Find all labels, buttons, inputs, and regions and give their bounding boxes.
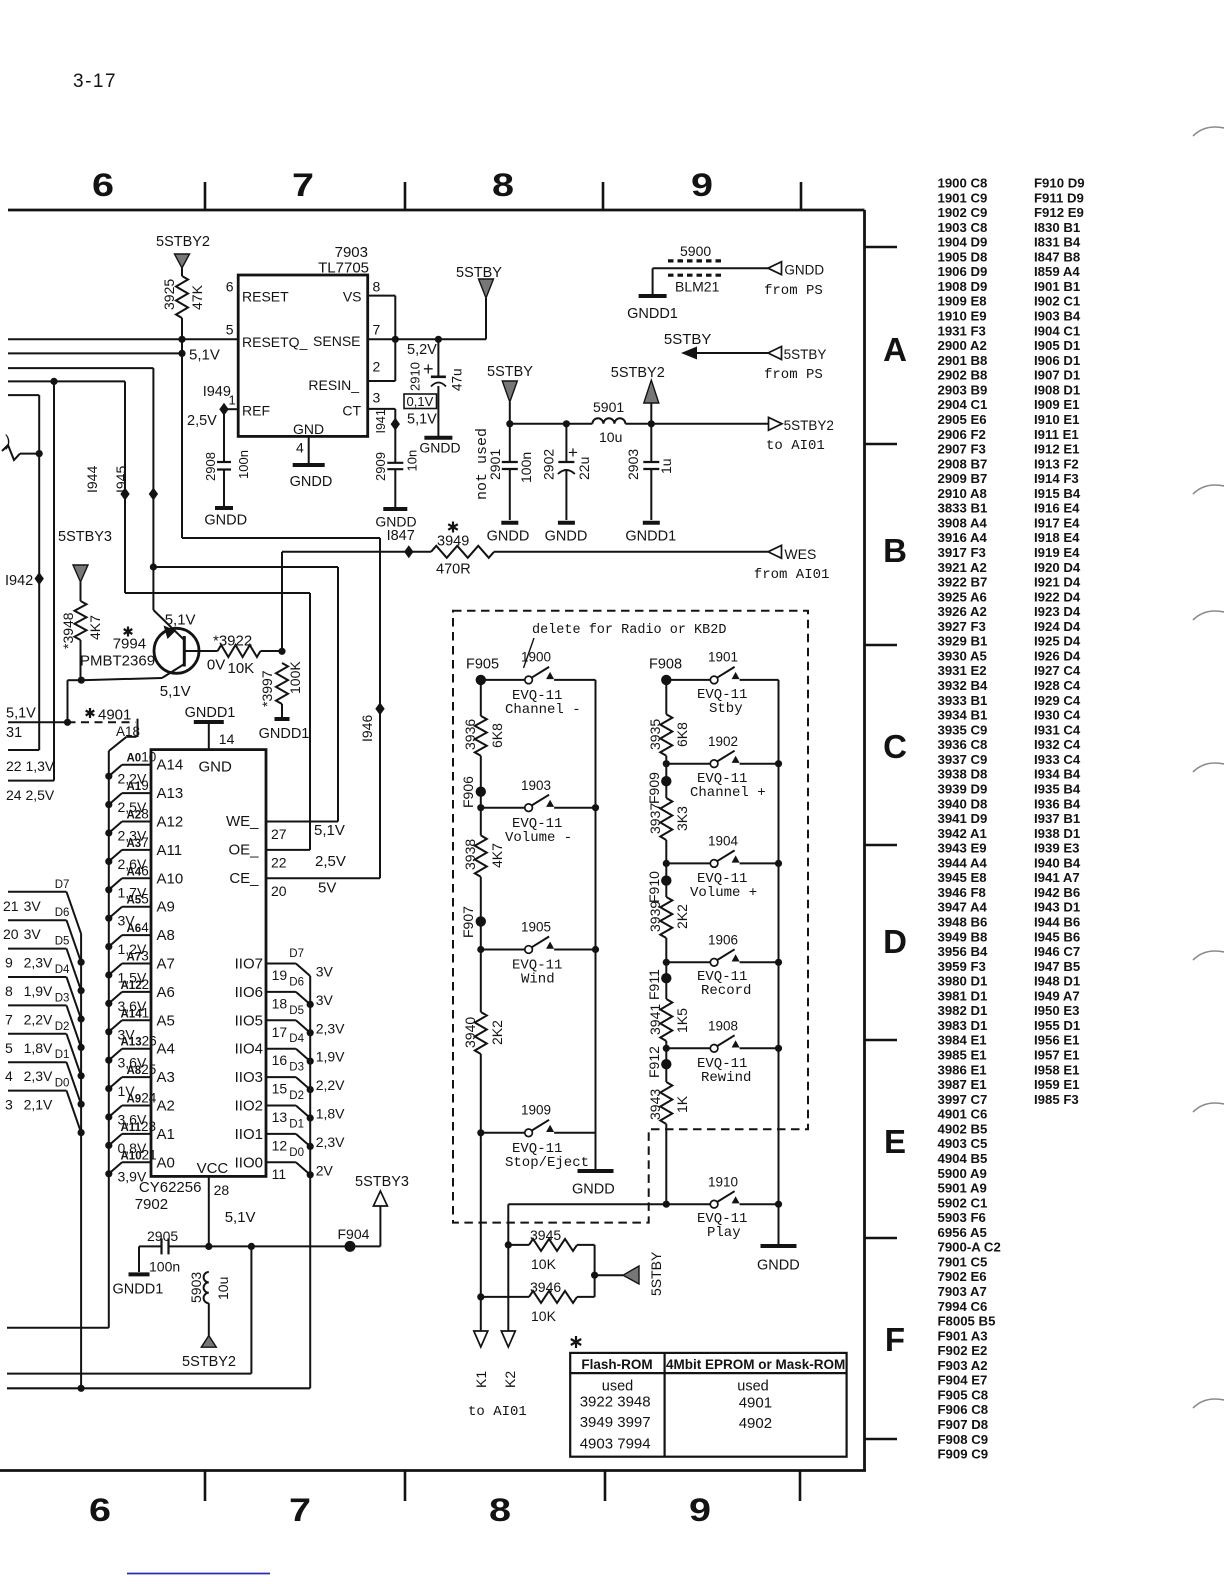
svg-text:to AI01: to AI01: [766, 438, 825, 454]
svg-text:D2: D2: [289, 1090, 304, 1102]
svg-text:6956 A5: 6956 A5: [938, 1225, 987, 1240]
svg-text:22: 22: [271, 855, 287, 871]
svg-text:100n: 100n: [518, 452, 534, 483]
svg-text:11: 11: [272, 1166, 287, 1182]
svg-text:5,1V: 5,1V: [6, 706, 36, 722]
svg-text:1K5: 1K5: [674, 1008, 690, 1033]
svg-text:I847 B8: I847 B8: [1034, 249, 1080, 264]
svg-text:3936 C8: 3936 C8: [938, 737, 988, 752]
svg-text:A13: A13: [157, 785, 184, 802]
svg-text:I959 E1: I959 E1: [1034, 1077, 1079, 1092]
svg-text:100n: 100n: [149, 1259, 180, 1275]
svg-text:F901 A3: F901 A3: [938, 1328, 988, 1343]
svg-text:*3922: *3922: [213, 633, 252, 650]
svg-text:A28: A28: [127, 807, 149, 822]
svg-text:10K: 10K: [228, 660, 255, 677]
svg-text:IIO2: IIO2: [235, 1098, 263, 1115]
svg-text:I942: I942: [5, 573, 33, 589]
svg-text:10K: 10K: [531, 1256, 557, 1272]
svg-text:12: 12: [272, 1137, 288, 1153]
svg-text:1904 D9: 1904 D9: [938, 235, 988, 250]
svg-text:7: 7: [373, 322, 381, 338]
svg-text:7903: 7903: [335, 244, 368, 261]
svg-text:RESETQ_: RESETQ_: [242, 334, 308, 350]
svg-text:100K: 100K: [287, 661, 303, 694]
svg-text:F912: F912: [646, 1046, 662, 1078]
svg-text:CT: CT: [342, 403, 361, 419]
svg-text:6K8: 6K8: [674, 722, 690, 747]
svg-text:1,9V: 1,9V: [24, 983, 53, 999]
svg-text:A010: A010: [127, 750, 157, 765]
svg-text:3949: 3949: [437, 534, 469, 550]
svg-text:2: 2: [373, 359, 381, 375]
svg-text:2,3V: 2,3V: [316, 1020, 345, 1036]
svg-text:A14: A14: [157, 757, 184, 774]
svg-text:5: 5: [226, 322, 234, 338]
svg-text:IIO1: IIO1: [235, 1126, 263, 1143]
svg-text:I942 B6: I942 B6: [1034, 885, 1080, 900]
svg-text:3935: 3935: [647, 719, 663, 750]
svg-text:D6: D6: [55, 907, 70, 919]
svg-text:2,5V: 2,5V: [315, 853, 346, 870]
svg-text:3937 C9: 3937 C9: [938, 752, 988, 767]
svg-text:0,1V: 0,1V: [407, 394, 434, 409]
svg-text:1,8V: 1,8V: [316, 1106, 345, 1122]
svg-text:2,3V: 2,3V: [316, 1134, 345, 1150]
svg-text:I929 C4: I929 C4: [1034, 693, 1081, 708]
svg-text:5,1V: 5,1V: [165, 612, 196, 629]
svg-text:F912 E9: F912 E9: [1034, 205, 1084, 220]
svg-text:Channel -: Channel -: [505, 702, 581, 718]
svg-text:GNDD1: GNDD1: [625, 529, 676, 545]
svg-text:4903 C5: 4903 C5: [938, 1136, 988, 1151]
svg-text:3833 B1: 3833 B1: [938, 501, 988, 516]
svg-text:1910 E9: 1910 E9: [938, 309, 987, 324]
svg-text:470R: 470R: [436, 562, 471, 578]
svg-text:A5: A5: [157, 1012, 175, 1029]
svg-text:F911 D9: F911 D9: [1034, 190, 1084, 205]
svg-text:2901: 2901: [487, 449, 503, 480]
svg-text:20: 20: [3, 926, 19, 942]
svg-text:8: 8: [489, 1492, 511, 1528]
svg-text:2903 B9: 2903 B9: [938, 382, 988, 397]
svg-text:6K8: 6K8: [489, 723, 505, 748]
svg-text:I935 B4: I935 B4: [1034, 781, 1081, 796]
svg-text:A7: A7: [157, 956, 175, 973]
svg-text:10K: 10K: [531, 1308, 557, 1324]
svg-text:Record: Record: [701, 983, 751, 999]
svg-text:5,1V: 5,1V: [160, 683, 191, 700]
svg-text:Play: Play: [707, 1225, 741, 1241]
svg-text:3917 F3: 3917 F3: [938, 545, 986, 560]
svg-text:4902 B5: 4902 B5: [938, 1121, 988, 1136]
svg-text:22 1,3V: 22 1,3V: [6, 758, 55, 774]
svg-text:I936 B4: I936 B4: [1034, 796, 1081, 811]
svg-text:3934 B1: 3934 B1: [938, 708, 988, 723]
svg-text:REF: REF: [242, 403, 270, 419]
svg-text:GNDD: GNDD: [290, 474, 333, 490]
svg-text:5,1V: 5,1V: [225, 1209, 256, 1226]
svg-text:I946: I946: [359, 715, 375, 742]
svg-text:F904 E7: F904 E7: [938, 1373, 988, 1388]
svg-text:I917 E4: I917 E4: [1034, 515, 1080, 530]
svg-text:5STBY2: 5STBY2: [611, 365, 665, 381]
svg-text:1910: 1910: [708, 1175, 738, 1190]
svg-text:21: 21: [3, 898, 19, 914]
svg-text:5900 A9: 5900 A9: [938, 1166, 987, 1181]
svg-text:I924 D4: I924 D4: [1034, 619, 1081, 634]
svg-text:3997 C7: 3997 C7: [938, 1092, 988, 1107]
svg-text:IIO5: IIO5: [235, 1012, 263, 1029]
svg-text:I945: I945: [113, 466, 129, 493]
svg-text:I912 E1: I912 E1: [1034, 442, 1079, 457]
svg-text:3921 A2: 3921 A2: [938, 560, 987, 575]
svg-text:GND: GND: [199, 759, 233, 776]
svg-text:3V: 3V: [24, 898, 42, 914]
svg-text:I941 A7: I941 A7: [1034, 870, 1080, 885]
svg-text:5STBY2: 5STBY2: [784, 418, 834, 433]
svg-text:3: 3: [5, 1097, 13, 1113]
svg-text:4901: 4901: [98, 707, 131, 724]
svg-text:1902: 1902: [708, 734, 738, 749]
svg-text:I949 A7: I949 A7: [1034, 988, 1080, 1003]
svg-text:2908: 2908: [203, 452, 218, 481]
svg-text:4: 4: [5, 1068, 13, 1084]
svg-text:3959 F3: 3959 F3: [938, 959, 986, 974]
svg-text:GND: GND: [293, 421, 324, 437]
svg-text:D3: D3: [289, 1062, 304, 1074]
svg-text:GNDD1: GNDD1: [627, 306, 678, 322]
svg-text:from AI01: from AI01: [754, 567, 830, 583]
svg-text:3,9V: 3,9V: [118, 1168, 147, 1184]
svg-text:I914 F3: I914 F3: [1034, 471, 1079, 486]
svg-text:GNDD: GNDD: [545, 529, 588, 545]
svg-text:7902: 7902: [135, 1196, 168, 1213]
svg-text:F909: F909: [646, 772, 662, 804]
svg-text:I913 F2: I913 F2: [1034, 456, 1079, 471]
svg-text:4K7: 4K7: [87, 615, 103, 640]
svg-text:from PS: from PS: [764, 283, 823, 299]
svg-text:1,9V: 1,9V: [316, 1049, 345, 1065]
svg-text:A73: A73: [127, 949, 149, 964]
svg-text:I922 D4: I922 D4: [1034, 589, 1081, 604]
svg-text:1906 D9: 1906 D9: [938, 264, 988, 279]
svg-text:3925 A6: 3925 A6: [938, 589, 987, 604]
svg-text:5STBY: 5STBY: [784, 347, 827, 362]
svg-text:5STBY3: 5STBY3: [355, 1174, 409, 1190]
svg-text:2905: 2905: [147, 1228, 178, 1244]
svg-text:A37: A37: [127, 835, 149, 850]
svg-text:A1326: A1326: [121, 1034, 157, 1049]
svg-text:A12: A12: [157, 814, 184, 831]
svg-text:100n: 100n: [236, 450, 251, 479]
svg-text:A1: A1: [157, 1126, 175, 1143]
svg-text:47K: 47K: [189, 284, 205, 310]
svg-text:27: 27: [271, 826, 287, 842]
svg-text:2K2: 2K2: [674, 904, 690, 929]
svg-text:3945: 3945: [530, 1227, 561, 1243]
svg-text:I940 B4: I940 B4: [1034, 855, 1081, 870]
svg-text:A9: A9: [157, 899, 175, 916]
svg-text:3K3: 3K3: [674, 806, 690, 831]
svg-text:5902 C1: 5902 C1: [938, 1195, 988, 1210]
svg-text:1908 D9: 1908 D9: [938, 279, 988, 294]
svg-text:GNDD1: GNDD1: [259, 726, 310, 742]
svg-text:8: 8: [5, 983, 13, 999]
svg-text:A10: A10: [157, 870, 184, 887]
svg-text:I920 D4: I920 D4: [1034, 560, 1081, 575]
svg-text:1901: 1901: [708, 650, 738, 665]
svg-text:3930 A5: 3930 A5: [938, 648, 987, 663]
svg-text:I918 E4: I918 E4: [1034, 530, 1080, 545]
svg-text:3985 E1: 3985 E1: [938, 1048, 987, 1063]
svg-text:3941: 3941: [647, 1004, 663, 1035]
svg-text:*3948: *3948: [60, 612, 76, 649]
svg-text:2910: 2910: [408, 362, 423, 391]
svg-text:F905 C8: F905 C8: [938, 1387, 989, 1402]
svg-text:SENSE: SENSE: [313, 333, 360, 349]
svg-text:F8005 B5: F8005 B5: [938, 1314, 996, 1329]
svg-text:2907 F3: 2907 F3: [938, 442, 986, 457]
svg-text:2904 C1: 2904 C1: [938, 397, 988, 412]
svg-text:I916 E4: I916 E4: [1034, 501, 1080, 516]
svg-text:1903: 1903: [521, 778, 551, 793]
svg-text:2K2: 2K2: [489, 1020, 505, 1045]
svg-text:I859 A4: I859 A4: [1034, 264, 1080, 279]
svg-text:F910 D9: F910 D9: [1034, 176, 1085, 191]
svg-text:15: 15: [272, 1081, 288, 1097]
svg-text:1931 F3: 1931 F3: [938, 323, 986, 338]
svg-text:A0: A0: [157, 1154, 175, 1171]
svg-text:D0: D0: [55, 1078, 70, 1090]
svg-text:2908 B7: 2908 B7: [938, 456, 988, 471]
svg-text:F906 C8: F906 C8: [938, 1402, 989, 1417]
svg-text:3908 A4: 3908 A4: [938, 515, 988, 530]
svg-text:A3: A3: [157, 1069, 175, 1086]
svg-text:9: 9: [689, 1492, 711, 1528]
svg-text:7900-A C2: 7900-A C2: [938, 1240, 1001, 1255]
svg-text:2903: 2903: [625, 449, 641, 480]
svg-text:10u: 10u: [215, 1277, 231, 1300]
svg-text:2909 B7: 2909 B7: [938, 471, 988, 486]
svg-text:I910 E1: I910 E1: [1034, 412, 1079, 427]
svg-text:2902 B8: 2902 B8: [938, 368, 988, 383]
svg-text:3946 F8: 3946 F8: [938, 885, 986, 900]
svg-text:A4: A4: [157, 1041, 175, 1058]
svg-text:I902 C1: I902 C1: [1034, 294, 1080, 309]
svg-text:I938 D1: I938 D1: [1034, 826, 1080, 841]
svg-text:Volume -: Volume -: [505, 830, 572, 846]
svg-text:1901 C9: 1901 C9: [938, 190, 988, 205]
svg-text:3-17: 3-17: [73, 71, 117, 92]
svg-text:3929 B1: 3929 B1: [938, 634, 988, 649]
svg-text:D0: D0: [289, 1147, 304, 1159]
svg-text:I915 B4: I915 B4: [1034, 486, 1081, 501]
svg-text:F907: F907: [460, 906, 476, 938]
svg-text:10n: 10n: [405, 450, 420, 472]
svg-text:4901 C6: 4901 C6: [938, 1107, 988, 1122]
svg-text:*3997: *3997: [259, 670, 275, 707]
svg-text:24 2,5V: 24 2,5V: [6, 787, 55, 803]
svg-text:2,3V: 2,3V: [24, 955, 53, 971]
svg-text:3: 3: [373, 390, 381, 406]
svg-text:3931 E2: 3931 E2: [938, 663, 987, 678]
svg-text:F: F: [885, 1321, 905, 1358]
svg-text:7994: 7994: [113, 636, 146, 653]
svg-text:D4: D4: [289, 1033, 304, 1045]
svg-text:D4: D4: [55, 964, 70, 976]
svg-text:1908: 1908: [708, 1019, 738, 1034]
svg-text:1903 C8: 1903 C8: [938, 220, 988, 235]
svg-text:IIO4: IIO4: [235, 1041, 263, 1058]
svg-text:2,2V: 2,2V: [24, 1011, 53, 1027]
svg-text:5,1V: 5,1V: [407, 412, 437, 428]
svg-text:3940: 3940: [462, 1017, 478, 1048]
svg-text:3948 B6: 3948 B6: [938, 915, 988, 930]
svg-text:D7: D7: [289, 948, 304, 960]
svg-text:I957 E1: I957 E1: [1034, 1048, 1079, 1063]
svg-text:3941 D9: 3941 D9: [938, 811, 988, 826]
svg-text:I948 D1: I948 D1: [1034, 974, 1080, 989]
svg-text:I947 B5: I947 B5: [1034, 959, 1080, 974]
svg-text:5901: 5901: [593, 399, 624, 415]
svg-text:Wind: Wind: [521, 972, 555, 988]
svg-text:3938: 3938: [462, 839, 478, 870]
svg-text:A1123: A1123: [121, 1119, 157, 1134]
svg-text:I901 B1: I901 B1: [1034, 279, 1080, 294]
svg-text:3927 F3: 3927 F3: [938, 619, 986, 634]
svg-text:3983 D1: 3983 D1: [938, 1018, 988, 1033]
svg-text:3942 A1: 3942 A1: [938, 826, 987, 841]
svg-text:4902: 4902: [739, 1415, 772, 1432]
svg-text:used: used: [602, 1379, 633, 1395]
svg-text:GNDD: GNDD: [757, 1258, 800, 1274]
svg-text:17: 17: [272, 1024, 288, 1040]
svg-text:I926 D4: I926 D4: [1034, 648, 1081, 663]
svg-text:I905 D1: I905 D1: [1034, 338, 1080, 353]
svg-text:1,8V: 1,8V: [24, 1040, 53, 1056]
svg-text:B: B: [883, 532, 907, 569]
svg-text:I906 D1: I906 D1: [1034, 353, 1080, 368]
svg-text:F908: F908: [649, 657, 682, 673]
svg-text:RESIN_: RESIN_: [308, 377, 359, 393]
svg-text:3939: 3939: [647, 901, 663, 932]
svg-text:GNDD: GNDD: [784, 263, 824, 278]
svg-text:8: 8: [373, 279, 381, 295]
svg-text:3937: 3937: [647, 803, 663, 834]
svg-text:7994 C6: 7994 C6: [938, 1299, 988, 1314]
svg-text:A46: A46: [127, 863, 149, 878]
svg-text:7903 A7: 7903 A7: [938, 1284, 987, 1299]
svg-text:13: 13: [272, 1109, 288, 1125]
svg-text:I934 B4: I934 B4: [1034, 767, 1081, 782]
svg-text:WE_: WE_: [226, 813, 259, 830]
svg-text:I919 E4: I919 E4: [1034, 545, 1080, 560]
svg-text:3916 A4: 3916 A4: [938, 530, 988, 545]
svg-text:3943 E9: 3943 E9: [938, 841, 987, 856]
svg-text:VCC: VCC: [197, 1160, 229, 1177]
svg-text:I955 D1: I955 D1: [1034, 1018, 1080, 1033]
svg-text:3V: 3V: [24, 926, 42, 942]
svg-text:4K7: 4K7: [489, 843, 505, 868]
svg-text:1902 C9: 1902 C9: [938, 205, 988, 220]
svg-text:3938 D8: 3938 D8: [938, 767, 988, 782]
svg-text:5STBY: 5STBY: [648, 1251, 664, 1296]
svg-text:D: D: [883, 923, 907, 960]
svg-text:I944: I944: [84, 466, 100, 493]
svg-text:I903 B4: I903 B4: [1034, 309, 1081, 324]
svg-text:3922 B7: 3922 B7: [938, 575, 988, 590]
svg-text:2,3V: 2,3V: [24, 1068, 53, 1084]
svg-text:D5: D5: [55, 936, 70, 948]
svg-text:7: 7: [292, 167, 314, 203]
svg-text:D2: D2: [55, 1021, 70, 1033]
svg-text:5,1V: 5,1V: [314, 822, 345, 839]
svg-text:GNDD1: GNDD1: [185, 705, 236, 721]
svg-text:E: E: [884, 1123, 906, 1160]
svg-text:I937 B1: I937 B1: [1034, 811, 1080, 826]
svg-text:I985 F3: I985 F3: [1034, 1092, 1079, 1107]
svg-text:Stop/Eject: Stop/Eject: [505, 1155, 589, 1171]
svg-text:6: 6: [92, 167, 114, 203]
svg-text:7902 E6: 7902 E6: [938, 1269, 987, 1284]
svg-text:Flash-ROM: Flash-ROM: [581, 1357, 652, 1372]
svg-text:5,2V: 5,2V: [407, 342, 437, 358]
svg-text:Stby: Stby: [709, 701, 743, 717]
svg-text:I847: I847: [387, 528, 415, 544]
svg-text:I958 E1: I958 E1: [1034, 1062, 1079, 1077]
svg-text:from PS: from PS: [764, 367, 823, 383]
svg-text:3936: 3936: [462, 719, 478, 750]
svg-text:I949: I949: [203, 384, 231, 400]
svg-text:F905: F905: [466, 657, 499, 673]
svg-text:3987 E1: 3987 E1: [938, 1077, 987, 1092]
svg-text:3984 E1: 3984 E1: [938, 1033, 987, 1048]
svg-text:2,2V: 2,2V: [316, 1077, 345, 1093]
svg-text:5STBY3: 5STBY3: [58, 529, 112, 545]
svg-text:I931 C4: I931 C4: [1034, 722, 1081, 737]
svg-text:5STBY2: 5STBY2: [156, 234, 210, 250]
svg-text:I943 D1: I943 D1: [1034, 900, 1080, 915]
svg-text:A6: A6: [157, 984, 175, 1001]
svg-text:1909: 1909: [521, 1103, 551, 1118]
svg-text:3V: 3V: [316, 992, 334, 1008]
svg-text:I904 C1: I904 C1: [1034, 323, 1080, 338]
svg-text:to AI01: to AI01: [468, 1404, 527, 1420]
svg-text:2,5V: 2,5V: [187, 413, 217, 429]
svg-text:3922 3948: 3922 3948: [580, 1394, 651, 1411]
svg-text:3932 B4: 3932 B4: [938, 678, 989, 693]
svg-text:2900 A2: 2900 A2: [938, 338, 987, 353]
svg-text:1909 E8: 1909 E8: [938, 294, 987, 309]
svg-text:4Mbit EPROM or Mask-ROM: 4Mbit EPROM or Mask-ROM: [666, 1357, 845, 1372]
svg-text:2901 B8: 2901 B8: [938, 353, 988, 368]
svg-text:RESET: RESET: [242, 289, 289, 305]
svg-text:1905 D8: 1905 D8: [938, 249, 988, 264]
svg-text:2909: 2909: [373, 452, 388, 481]
svg-text:5: 5: [5, 1040, 13, 1056]
svg-text:7901 C5: 7901 C5: [938, 1254, 988, 1269]
svg-text:5903 F6: 5903 F6: [938, 1210, 986, 1225]
svg-text:3943: 3943: [647, 1089, 663, 1120]
svg-text:3939 D9: 3939 D9: [938, 781, 988, 796]
svg-text:VS: VS: [343, 289, 362, 305]
svg-text:28: 28: [214, 1182, 230, 1198]
svg-text:I923 D4: I923 D4: [1034, 604, 1081, 619]
svg-text:I933 C4: I933 C4: [1034, 752, 1081, 767]
svg-text:D1: D1: [55, 1049, 70, 1061]
svg-text:CY62256: CY62256: [139, 1179, 202, 1196]
